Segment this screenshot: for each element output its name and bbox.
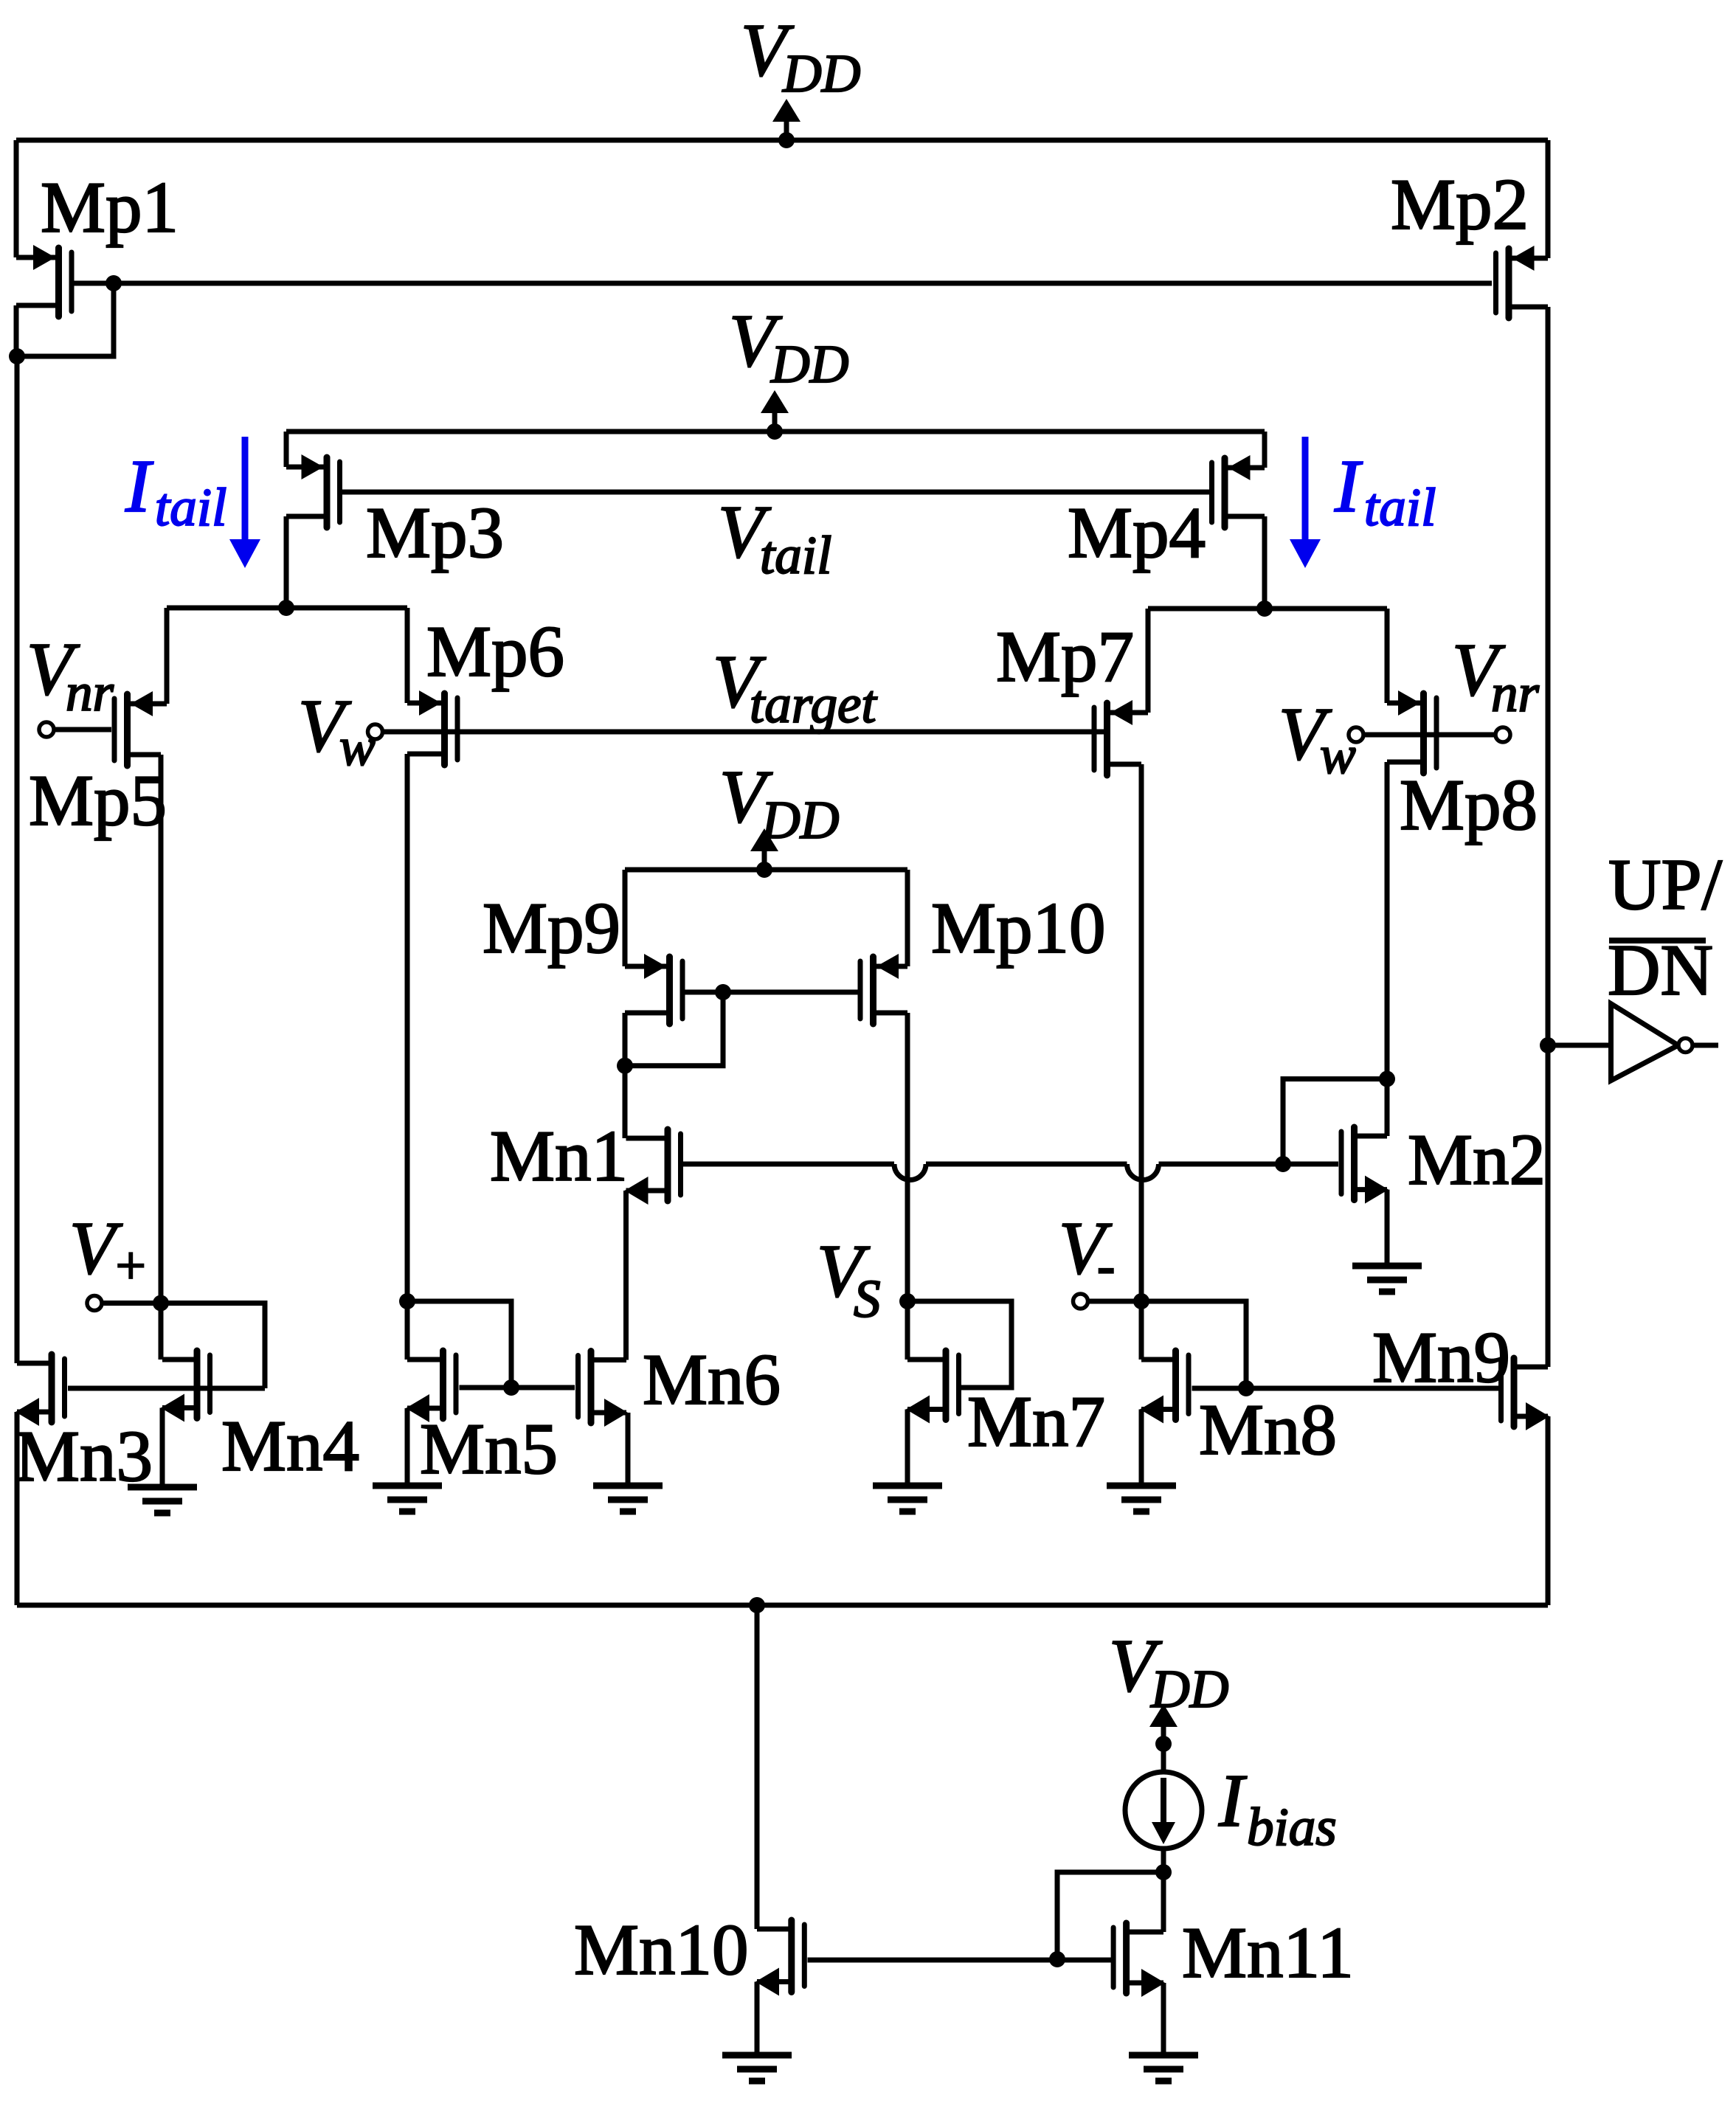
wire Mn7 drain vertical — [905, 1301, 910, 1360]
label V_DD bottom — [1109, 1624, 1228, 1719]
wire Mn11 drain up — [1161, 1849, 1166, 1932]
svg-text:tail: tail — [155, 477, 226, 537]
transistor Mn1 (NMOS) — [625, 1129, 681, 1205]
transistor Mn3 (NMOS) — [15, 1354, 65, 1426]
wire Mp1 gate-drain tie — [17, 283, 114, 356]
svg-text:DD: DD — [761, 790, 839, 850]
transistor Mp9 (PMOS, diode-connected) — [625, 954, 682, 1024]
transistor Mp7 (PMOS) — [1094, 700, 1148, 775]
node V- junction — [1133, 1293, 1149, 1309]
node Mp1 gate junction — [106, 275, 122, 291]
svg-text:DD: DD — [782, 44, 860, 103]
label Mp4 — [1068, 493, 1206, 573]
wire I_bias to VDD — [1161, 1726, 1166, 1772]
label UP/ — [1608, 845, 1723, 925]
wire Mp6 drain down — [405, 754, 410, 1301]
wire right border mid (inverter to Mn9) — [1546, 1045, 1551, 1367]
wire Mn8 drain vertical — [1139, 1301, 1144, 1360]
svg-text:I: I — [125, 445, 153, 528]
svg-text:target: target — [750, 674, 877, 734]
svg-text:Mn8: Mn8 — [1199, 1390, 1337, 1470]
wire Mn5 source down — [405, 1408, 410, 1486]
ground Mn10 — [722, 2055, 792, 2081]
wire Mp3 source feed — [284, 432, 289, 467]
svg-text:Mp9: Mp9 — [483, 888, 620, 969]
node Mp9 gate junction — [715, 984, 731, 1000]
wire Mp5 source feed — [165, 608, 170, 704]
svg-text:UP/: UP/ — [1608, 845, 1723, 925]
ground Mn4 — [128, 1487, 197, 1513]
svg-text:DD: DD — [1150, 1659, 1228, 1719]
wire V_w right gate line — [1363, 733, 1495, 738]
label Mn10 — [574, 1910, 749, 1990]
label V_nr right — [1452, 628, 1540, 723]
wire Mp3 drain down — [284, 516, 289, 608]
svg-text:w: w — [339, 717, 376, 777]
transistor Mn6 (NMOS) — [578, 1351, 629, 1427]
label I_tail right — [1334, 445, 1436, 537]
svg-text:Mp4: Mp4 — [1068, 493, 1206, 573]
wire V_tail (Mp3 gate to Mp4 gate) — [342, 490, 1210, 495]
wire bottom rail — [17, 1603, 1548, 1608]
transistor Mp4 (PMOS) — [1212, 455, 1265, 527]
wire Mn5-Mn6 gate line — [460, 1385, 575, 1391]
transistor Mn5 (NMOS) — [406, 1351, 456, 1422]
node Mn8 gate junction — [1238, 1380, 1254, 1396]
wire VDD rail 2 — [286, 429, 1265, 434]
svg-text:nr: nr — [66, 662, 114, 722]
node I_bias VDD junction — [1155, 1736, 1172, 1752]
label V_DD top — [741, 9, 860, 103]
transistor Mn2 (NMOS) — [1341, 1127, 1389, 1204]
wire left tail node horizontal — [167, 606, 407, 611]
label V_w left — [298, 685, 376, 777]
transistor Mp8 (PMOS) — [1387, 690, 1436, 773]
wire Mp9 gate-drain tie — [625, 992, 723, 1066]
wire Mn10-Mn11 gate line — [808, 1958, 1112, 1963]
label Mp6 — [426, 612, 564, 692]
svg-text:S: S — [854, 1269, 881, 1329]
gate inverter U1 — [1611, 1004, 1693, 1081]
node Mp8 drain/Mn2 drain junction — [1379, 1071, 1395, 1087]
wire Mn1 source down to Mn6 drain — [623, 1191, 629, 1360]
transistor Mn4 (NMOS, diode-connected) — [161, 1351, 210, 1422]
svg-text:Mn5: Mn5 — [420, 1409, 558, 1489]
label V_target — [713, 640, 877, 734]
wire Mn2 source down — [1385, 1190, 1390, 1266]
terminal V_w left — [368, 724, 383, 739]
wire V- to node — [1088, 1299, 1141, 1304]
svg-text:tail: tail — [1364, 477, 1436, 537]
wire Mn8 gate wrap — [1141, 1301, 1246, 1388]
transistor Mp6 (PMOS) — [407, 690, 457, 765]
svg-text:Mp10: Mp10 — [931, 888, 1106, 969]
wire Mn9 source to bottom rail — [1546, 1416, 1551, 1605]
wire Mn8-Mn9 gate line — [1192, 1386, 1499, 1391]
label Mn2 — [1408, 1120, 1546, 1200]
wire Mn6 source down — [626, 1413, 631, 1486]
label Mp3 — [366, 493, 504, 573]
node Mn11 drain junction — [1155, 1864, 1172, 1880]
wire Mn8 source down — [1139, 1410, 1144, 1486]
ground Mn11 — [1129, 2055, 1198, 2081]
label V_DD rail3 — [719, 755, 839, 850]
terminal V_nr right — [1495, 727, 1510, 742]
node right tail junction — [1256, 600, 1273, 617]
svg-text:Mp6: Mp6 — [426, 612, 564, 692]
current arrow I_tail right — [1290, 437, 1321, 568]
label V_w right — [1279, 693, 1356, 785]
transistor Mp2 (PMOS) — [1496, 246, 1549, 318]
ground Mn8 — [1107, 1486, 1176, 1511]
label Mp1 — [41, 167, 179, 248]
node V_S junction — [899, 1293, 916, 1309]
wire Mn1 gate line with hops — [683, 1164, 1338, 1180]
transistor Mn7 (NMOS, diode-connected) — [906, 1351, 959, 1424]
svg-text:Mp7: Mp7 — [996, 617, 1134, 697]
ground Mn2 — [1352, 1266, 1422, 1292]
label Mp5 — [29, 761, 167, 841]
wire Mp1 drain down left border segment — [14, 305, 19, 356]
wire Mp5 drain down — [159, 755, 164, 1303]
transistor Mn9 (NMOS) — [1501, 1358, 1550, 1430]
wire Mp4 drain down — [1262, 516, 1268, 609]
label Mp10 — [931, 888, 1106, 969]
wire Mn11 gate-drain wrap — [1057, 1872, 1163, 1959]
node Mp9 drain junction — [617, 1058, 633, 1074]
transistor Mp5 (PMOS input pair left) — [114, 691, 167, 766]
svg-text:Mp8: Mp8 — [1400, 765, 1538, 845]
label Mp7 — [996, 617, 1134, 697]
label V- — [1059, 1207, 1115, 1295]
svg-text:tail: tail — [760, 525, 831, 585]
wire Mn10 source down — [755, 1982, 760, 2056]
label V_nr left — [27, 628, 114, 722]
svg-text:Mn9: Mn9 — [1372, 1317, 1510, 1398]
svg-text:Mn2: Mn2 — [1408, 1120, 1546, 1200]
label Mn1 — [490, 1116, 628, 1197]
svg-text:DD: DD — [770, 334, 848, 394]
wire Mn7 gate wrap — [907, 1301, 1011, 1388]
transistor Mp10 (PMOS) — [860, 954, 907, 1024]
wire Mp8 drain down — [1385, 762, 1390, 1079]
wire Mn4 source down — [160, 1408, 165, 1488]
node Mn10 gate junction — [1049, 1951, 1065, 1967]
wire left border upper (Mp1 source feed) — [14, 140, 19, 257]
node Mn5 gate junction — [503, 1379, 519, 1396]
svg-text:Mn11: Mn11 — [1182, 1913, 1354, 1993]
wire Mp8 source feed — [1385, 609, 1390, 703]
wire Mp9 drain down — [623, 1013, 628, 1138]
wire Mn11 source down — [1161, 1983, 1166, 2055]
label Mp2 — [1391, 165, 1529, 245]
power VDD rail2 — [761, 390, 789, 440]
svg-text:bias: bias — [1247, 1797, 1337, 1857]
ground Mn6 — [593, 1486, 663, 1511]
wire Mp2 drain down right border — [1546, 307, 1551, 1045]
label Mn7 — [967, 1382, 1105, 1462]
label Mn11 — [1182, 1913, 1354, 1993]
wire Mp7 source feed — [1146, 609, 1151, 713]
wire Mn3 gate line — [68, 1386, 265, 1391]
svg-text:Mp5: Mp5 — [29, 761, 167, 841]
wire Mp10 source feed — [905, 870, 910, 966]
label I_tail left — [125, 445, 226, 537]
current arrow I_tail left — [229, 437, 260, 568]
terminal V+ — [87, 1296, 102, 1311]
wire Mn4 gate wrap — [161, 1303, 265, 1389]
label Mn9 — [1372, 1317, 1510, 1398]
wire right tail node horizontal — [1148, 606, 1387, 612]
wire Mp9 source feed — [623, 870, 628, 966]
svg-text:DN: DN — [1608, 930, 1713, 1011]
wire Mn3 source to bottom rail — [15, 1412, 20, 1605]
node Mn2 gate junction — [1275, 1156, 1291, 1172]
wire inverter input — [1548, 1043, 1611, 1048]
wire Mp7 drain down — [1139, 764, 1144, 1301]
wire Mn4 drain vertical — [159, 1303, 164, 1360]
node V+ junction — [153, 1295, 169, 1312]
svg-text:nr: nr — [1491, 663, 1540, 723]
transistor Mn10 (NMOS) — [755, 1920, 804, 1996]
label Mp9 — [483, 888, 620, 969]
label DN overline — [1608, 930, 1713, 1011]
label V_S — [817, 1230, 881, 1329]
svg-text:I: I — [1334, 445, 1363, 528]
wire Mn7 source down — [905, 1410, 910, 1486]
label Mn6 — [643, 1340, 781, 1420]
wire top VDD rail — [16, 138, 1548, 143]
transistor Mn8 (NMOS, diode-connected) — [1140, 1351, 1189, 1424]
label I_bias — [1218, 1759, 1337, 1857]
ground Mn5 — [373, 1486, 442, 1511]
wire inverter output stub — [1692, 1043, 1718, 1048]
node Mp1 gate-drain tie lower junction — [9, 348, 25, 364]
wire Mp9 gate line — [685, 990, 858, 995]
svg-text:Mn6: Mn6 — [643, 1340, 781, 1420]
wire Mn5 gate tie — [407, 1301, 511, 1388]
ground Mn7 — [873, 1486, 942, 1511]
svg-text:w: w — [1320, 725, 1356, 785]
label V_DD rail2 — [729, 299, 848, 394]
terminal V_nr left — [39, 722, 54, 737]
svg-text:-: - — [1097, 1236, 1115, 1295]
transistor Mp1 (diode-connected PMOS) — [16, 245, 72, 316]
wire Mp8 drain to Mn2 gate tie — [1283, 1079, 1387, 1164]
power VDD top — [772, 99, 800, 148]
node bottom rail junction — [749, 1597, 765, 1613]
label V_tail — [718, 491, 831, 585]
terminal V_w right — [1349, 727, 1363, 742]
svg-text:Mp1: Mp1 — [41, 167, 179, 248]
wire Mp6 source feed — [405, 608, 410, 703]
wire left border lower (Mp1 tie to Mn3 drain) — [15, 356, 20, 1363]
wire V+ to node — [102, 1301, 161, 1306]
label Mn5 — [420, 1409, 558, 1489]
svg-text:+: + — [112, 1236, 148, 1295]
label Mn8 — [1199, 1390, 1337, 1470]
wire Mp10 drain down to V_S — [905, 1013, 910, 1301]
power VDD rail3 — [750, 828, 778, 878]
wire Mn2 drain up — [1385, 1079, 1390, 1136]
svg-text:Mn7: Mn7 — [967, 1382, 1105, 1462]
transistor Mn11 (NMOS, diode-connected) — [1113, 1923, 1165, 1997]
wire Mp1 gate to Mp2 gate — [73, 281, 1492, 286]
wire right border upper (Mp2 source feed) — [1546, 140, 1551, 258]
node Mp6 drain junction — [399, 1293, 415, 1309]
svg-text:Mn10: Mn10 — [574, 1910, 749, 1990]
svg-text:Mn4: Mn4 — [221, 1406, 359, 1486]
wire Mn10 drain vertical — [755, 1605, 760, 1929]
label Mn4 — [221, 1406, 359, 1486]
node inverter input junction — [1540, 1037, 1556, 1053]
label V+ — [69, 1207, 148, 1295]
wire VDD rail 3 — [625, 868, 907, 873]
wire Mn5 drain vertical — [405, 1301, 410, 1360]
terminal V- — [1073, 1294, 1088, 1309]
power VDD bottom arrow — [1149, 1704, 1177, 1744]
label Mp8 — [1400, 765, 1538, 845]
svg-text:Mp2: Mp2 — [1391, 165, 1529, 245]
label Mn3 — [15, 1416, 153, 1497]
node left tail junction — [278, 600, 294, 616]
svg-text:Mp3: Mp3 — [366, 493, 504, 573]
wire V_w/V_target gate line left — [383, 730, 1111, 735]
wire Mp4 source feed — [1262, 432, 1268, 468]
svg-text:I: I — [1218, 1759, 1247, 1843]
svg-text:Mn1: Mn1 — [490, 1116, 628, 1197]
wire V_nr to Mp5 gate — [54, 727, 111, 733]
current source I_bias — [1125, 1772, 1202, 1849]
transistor Mp3 (PMOS) — [286, 454, 340, 527]
